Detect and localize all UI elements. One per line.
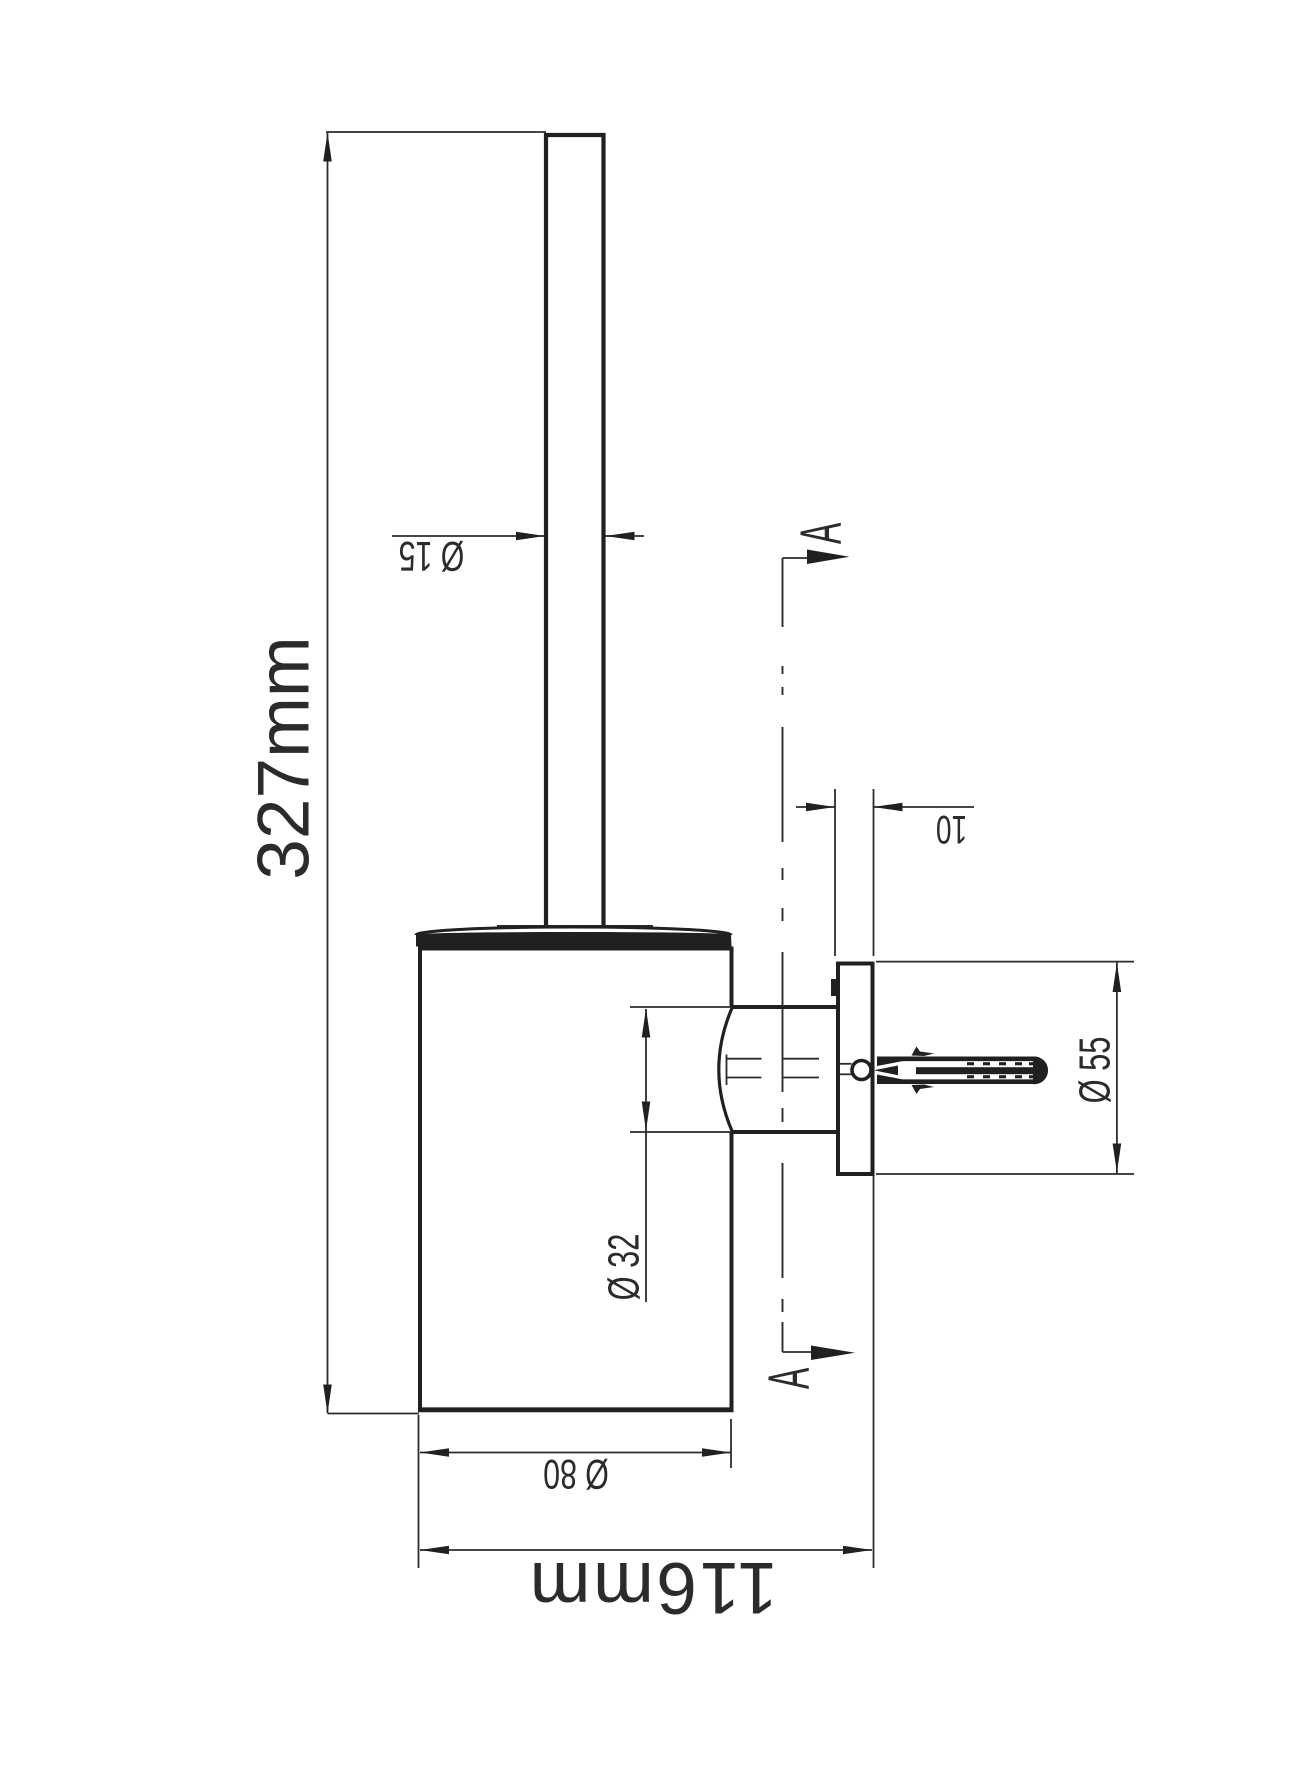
svg-text:327mm: 327mm [244,636,325,879]
svg-text:A: A [757,1367,821,1389]
svg-text:Ø 80: Ø 80 [543,1451,609,1498]
svg-text:Ø 15: Ø 15 [399,533,465,580]
svg-text:Ø 32: Ø 32 [600,1234,649,1301]
svg-text:10: 10 [936,806,967,850]
svg-text:A: A [789,522,853,544]
svg-text:Ø 55: Ø 55 [1071,1037,1120,1104]
svg-text:116mm: 116mm [527,1547,778,1628]
